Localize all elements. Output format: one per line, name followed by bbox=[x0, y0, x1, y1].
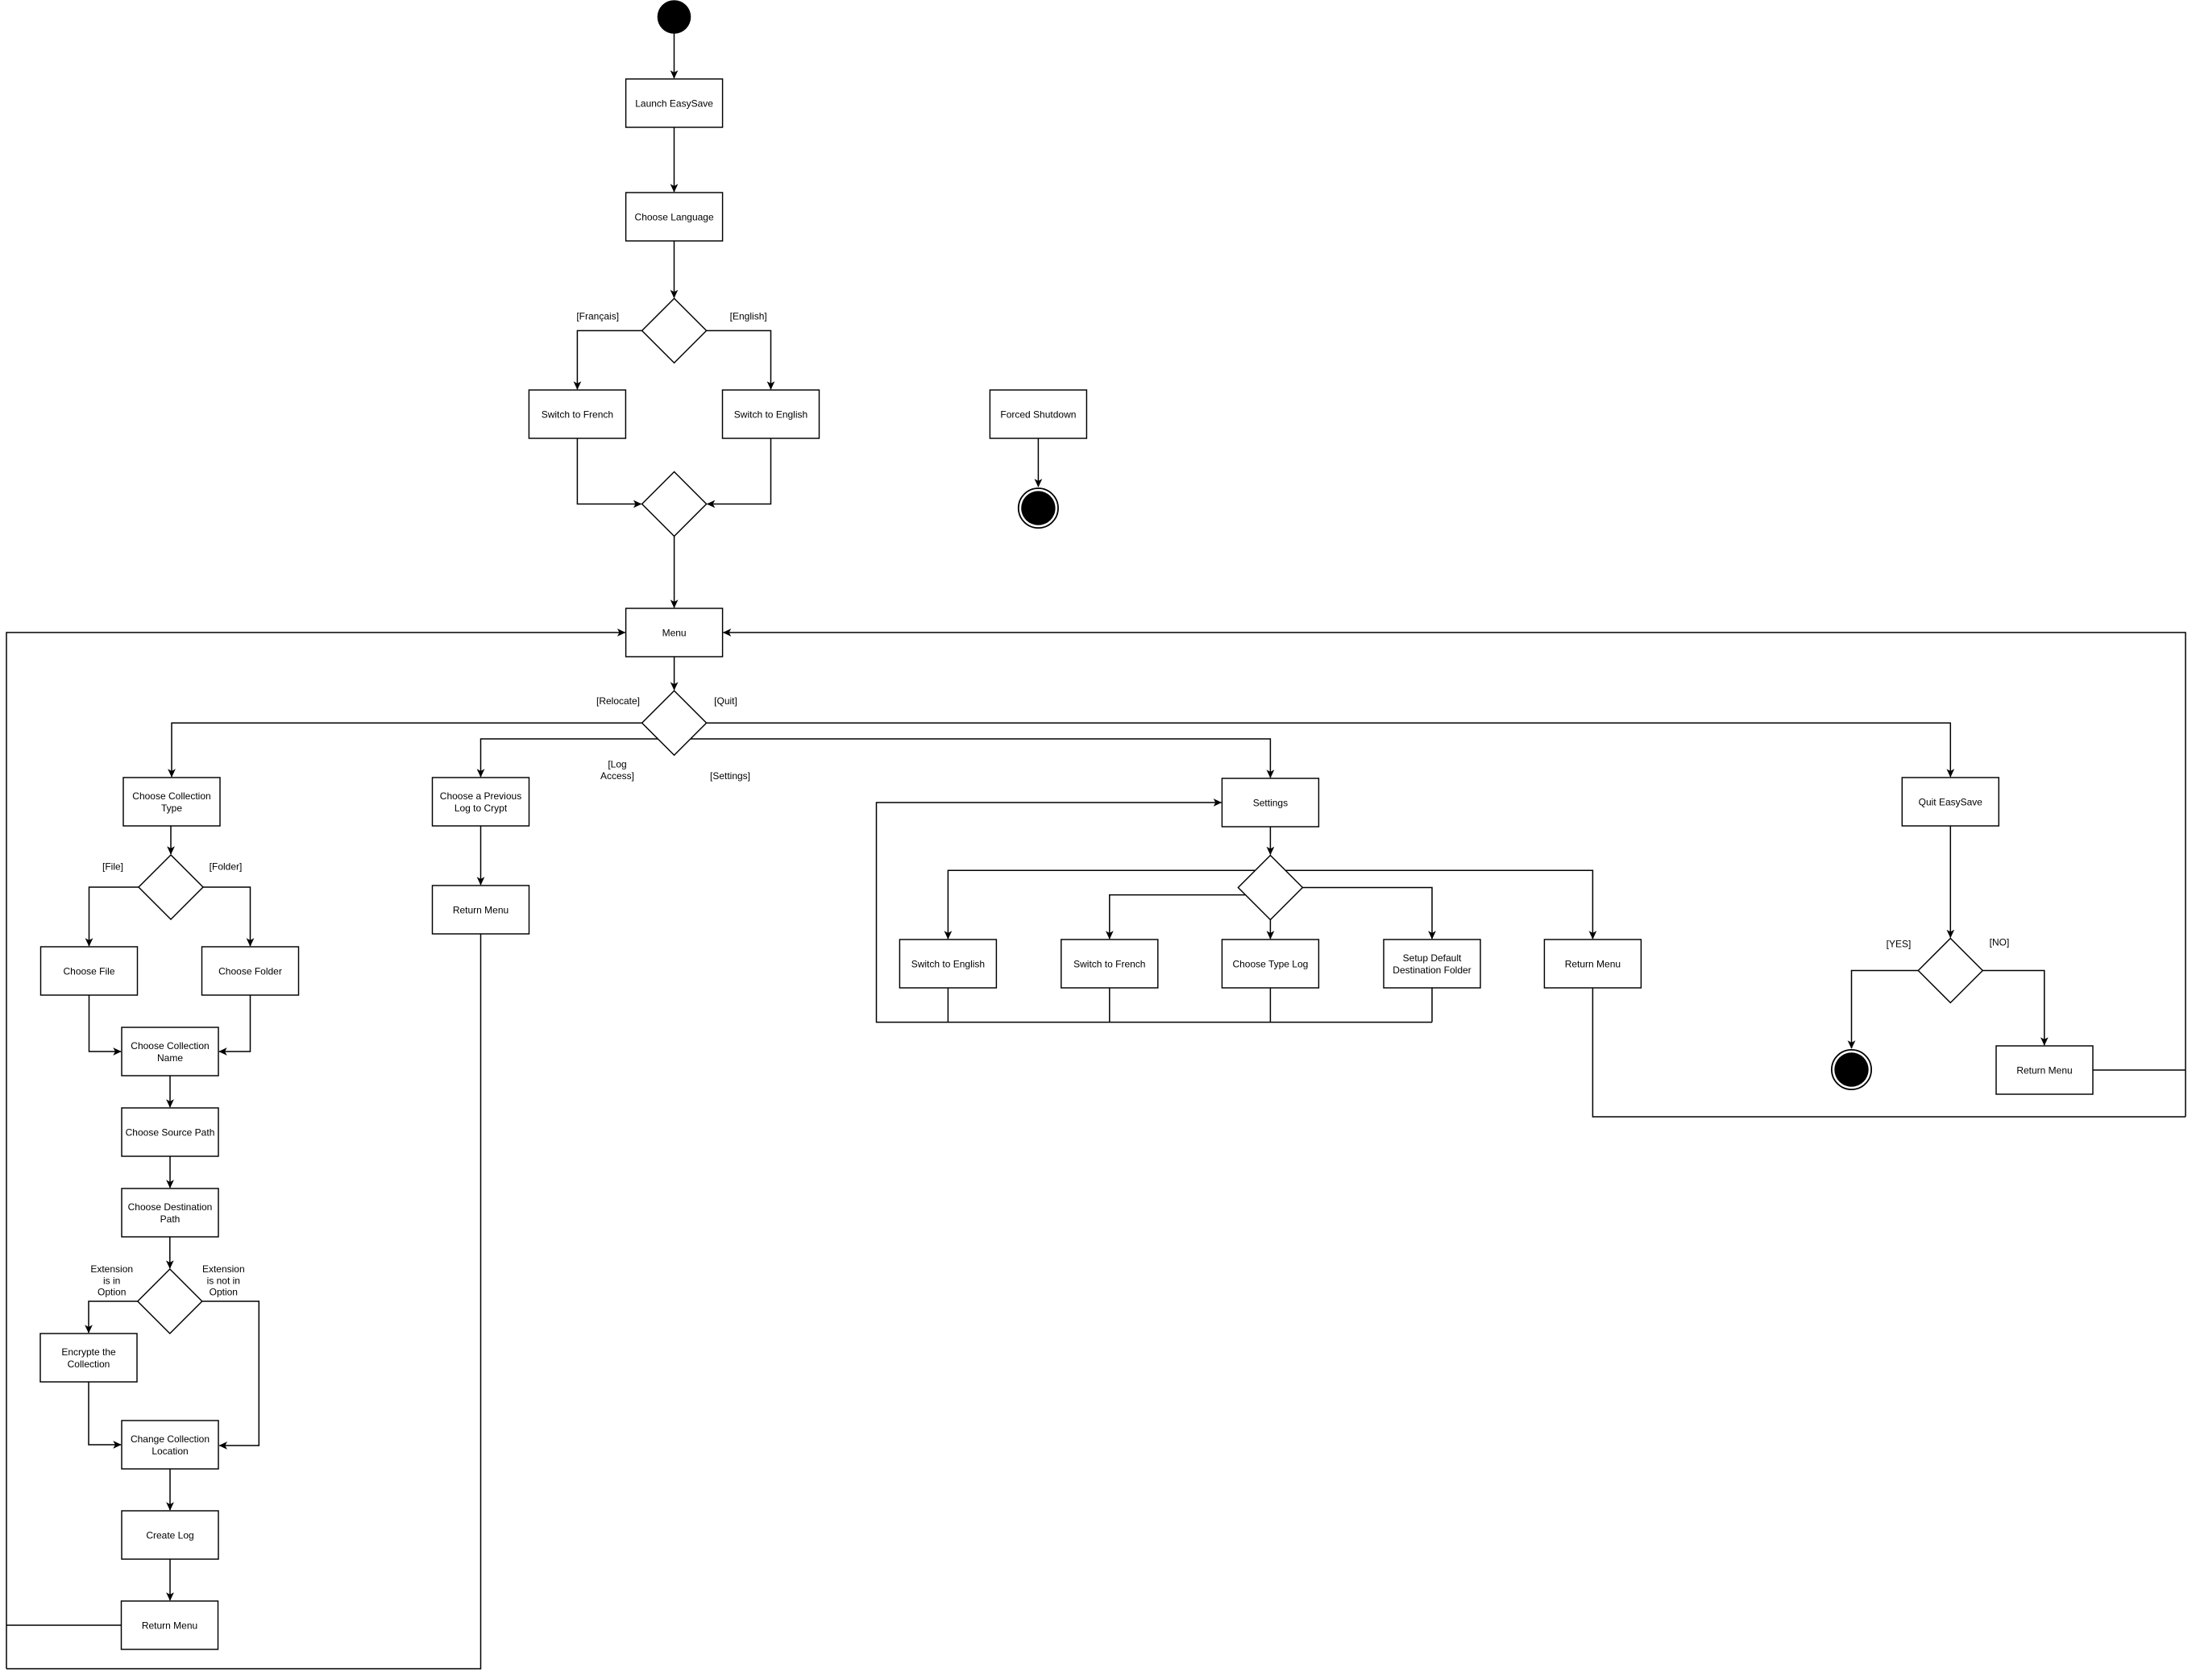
svg-text:Choose Source Path: Choose Source Path bbox=[126, 1126, 215, 1138]
svg-text:[YES]: [YES] bbox=[1887, 938, 1912, 949]
svg-text:Name: Name bbox=[157, 1052, 183, 1064]
svg-text:Switch to French: Switch to French bbox=[542, 409, 613, 420]
svg-text:Menu: Menu bbox=[662, 627, 687, 638]
svg-text:[File]: [File] bbox=[102, 861, 123, 872]
svg-text:[Quit]: [Quit] bbox=[714, 695, 737, 707]
svg-text:Choose Folder: Choose Folder bbox=[218, 965, 282, 977]
svg-text:Choose Language: Choose Language bbox=[635, 211, 714, 222]
svg-text:[Relocate]: [Relocate] bbox=[596, 695, 640, 707]
svg-text:Quit EasySave: Quit EasySave bbox=[1919, 796, 1983, 807]
svg-text:Extension: Extension bbox=[90, 1263, 133, 1275]
svg-text:Return Menu: Return Menu bbox=[453, 904, 509, 915]
svg-text:Log to Crypt: Log to Crypt bbox=[455, 803, 508, 814]
svg-text:Create Log: Create Log bbox=[146, 1529, 193, 1541]
svg-text:Choose Destination: Choose Destination bbox=[128, 1201, 213, 1213]
svg-text:Settings: Settings bbox=[1253, 797, 1288, 808]
svg-text:Path: Path bbox=[160, 1213, 181, 1225]
svg-text:Type: Type bbox=[161, 803, 182, 814]
svg-text:Collection: Collection bbox=[68, 1359, 110, 1370]
svg-text:is not in: is not in bbox=[207, 1275, 240, 1286]
svg-text:[Settings]: [Settings] bbox=[710, 770, 750, 782]
svg-text:Return Menu: Return Menu bbox=[2016, 1064, 2072, 1076]
svg-text:Option: Option bbox=[210, 1287, 238, 1298]
svg-text:Switch to French: Switch to French bbox=[1073, 958, 1145, 969]
svg-text:Extension: Extension bbox=[202, 1263, 245, 1275]
svg-text:Choose Type Log: Choose Type Log bbox=[1232, 958, 1308, 969]
svg-text:Return Menu: Return Menu bbox=[1565, 958, 1621, 969]
svg-text:[NO]: [NO] bbox=[1990, 936, 2010, 948]
svg-text:Setup Default: Setup Default bbox=[1403, 952, 1462, 964]
svg-text:Choose Collection: Choose Collection bbox=[132, 790, 210, 802]
svg-text:[Folder]: [Folder] bbox=[210, 861, 243, 872]
svg-text:Switch to English: Switch to English bbox=[734, 409, 807, 420]
svg-text:Launch EasySave: Launch EasySave bbox=[635, 97, 713, 109]
svg-text:Choose a Previous: Choose a Previous bbox=[440, 790, 521, 802]
svg-text:Access]: Access] bbox=[600, 770, 634, 782]
svg-text:Destination Folder: Destination Folder bbox=[1393, 964, 1471, 976]
svg-text:[Log: [Log bbox=[608, 759, 626, 770]
svg-text:[Français]: [Français] bbox=[576, 310, 619, 321]
svg-text:Forced Shutdown: Forced Shutdown bbox=[1000, 409, 1076, 420]
svg-text:Switch to English: Switch to English bbox=[911, 958, 985, 969]
svg-text:Option: Option bbox=[98, 1287, 126, 1298]
svg-text:Return Menu: Return Menu bbox=[142, 1620, 197, 1631]
svg-text:Choose File: Choose File bbox=[63, 965, 114, 977]
svg-text:[English]: [English] bbox=[730, 310, 767, 321]
svg-text:Encrypte the: Encrypte the bbox=[61, 1346, 116, 1358]
svg-text:Choose Collection: Choose Collection bbox=[131, 1040, 209, 1052]
svg-text:Location: Location bbox=[152, 1446, 188, 1457]
svg-text:Change Collection: Change Collection bbox=[131, 1433, 210, 1445]
svg-text:is in: is in bbox=[103, 1275, 120, 1286]
